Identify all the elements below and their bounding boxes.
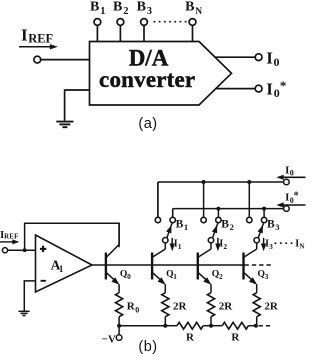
junction dots on I0 rail	[202, 180, 252, 184]
svg-text:(a): (a)	[138, 116, 157, 132]
dashed bottom rail continuation	[259, 325, 274, 327]
wire - input to ground	[24, 281, 35, 311]
svg-text:3: 3	[275, 222, 279, 232]
label I0*	[266, 78, 286, 100]
resistor 2R #2	[207, 293, 233, 326]
svg-text:N: N	[195, 7, 202, 17]
svg-text:N: N	[299, 243, 304, 251]
svg-text:2R: 2R	[264, 301, 279, 313]
resistor R0	[116, 293, 140, 326]
svg-text:1: 1	[173, 272, 177, 281]
svg-text:1: 1	[178, 242, 182, 251]
svg-text:2: 2	[123, 6, 128, 17]
input terminal IREF (b)	[0, 229, 19, 253]
terminal I0 circle	[255, 54, 262, 61]
junction dot node 4	[254, 324, 258, 328]
wire I0 rail to switch S1 left contact	[157, 182, 159, 217]
svg-text:2R: 2R	[219, 301, 234, 313]
svg-text:B: B	[221, 218, 229, 230]
svg-text:3: 3	[265, 272, 269, 281]
op-amp A1	[36, 235, 93, 292]
wire I0 rail corner	[157, 182, 159, 217]
wire I0* rail to switch S1 right contact	[172, 209, 174, 218]
svg-text:*: *	[294, 190, 299, 201]
I0 output rail	[158, 181, 284, 183]
wire I0 rail to switch S3 left contact	[248, 182, 250, 217]
svg-text:−V: −V	[102, 333, 116, 345]
resistor 2R #3	[253, 293, 279, 326]
svg-text:B: B	[90, 0, 99, 15]
svg-text:0: 0	[274, 55, 280, 69]
transistor Q3	[244, 243, 269, 293]
svg-text:I: I	[266, 80, 273, 99]
wire output I0*	[216, 88, 255, 90]
terminal I0* circle	[255, 85, 262, 92]
svg-text:R: R	[231, 331, 240, 343]
dots and label IN	[275, 238, 305, 250]
common base rail from op-amp output	[92, 264, 244, 266]
wire block to ground	[65, 90, 90, 121]
svg-text:B: B	[137, 0, 146, 15]
dotted line between B3 and BN	[154, 21, 189, 23]
svg-text:0: 0	[127, 272, 131, 281]
resistor 2R #1	[162, 293, 188, 326]
svg-text:I: I	[266, 48, 273, 67]
svg-text:1: 1	[184, 222, 188, 232]
junction dots on I0* rail	[216, 207, 266, 211]
svg-text:B: B	[267, 218, 275, 230]
label I0	[266, 48, 279, 68]
terminal -V	[102, 326, 122, 346]
svg-text:0: 0	[290, 169, 294, 178]
svg-text:R: R	[186, 331, 195, 343]
svg-text:1: 1	[100, 6, 105, 17]
wire I0* rail to switch S2 right contact	[217, 209, 219, 218]
svg-text:*: *	[280, 78, 287, 93]
node at + input	[23, 248, 27, 252]
svg-text:REF: REF	[4, 234, 19, 241]
svg-text:2R: 2R	[173, 301, 188, 313]
terminal I0 (b)	[284, 179, 290, 185]
switch S3 with contacts B3	[247, 217, 280, 243]
junction dot node 2	[163, 324, 167, 328]
wire I0* rail corner	[172, 209, 174, 218]
svg-text:0: 0	[135, 305, 139, 314]
I0* output rail	[173, 208, 284, 210]
svg-text:3: 3	[147, 6, 152, 17]
input terminal B1 with wire	[90, 0, 105, 42]
caption (b)	[138, 339, 157, 355]
resistor R #2	[211, 322, 256, 343]
svg-text:B: B	[176, 218, 184, 230]
svg-text:REF: REF	[28, 32, 53, 46]
ground symbol (a)	[56, 122, 73, 128]
svg-text:3: 3	[269, 242, 273, 251]
svg-text:2: 2	[219, 272, 223, 281]
svg-text:B: B	[113, 0, 122, 15]
svg-text:2: 2	[230, 222, 234, 232]
feedback wire from Q0 collector to + input	[25, 223, 120, 250]
switch S2 with contacts B2	[201, 217, 234, 243]
junction dot node 1	[117, 324, 121, 328]
switch S1 with contacts B1	[155, 217, 188, 243]
wire IREF to block	[41, 59, 90, 61]
input terminal B2 with wire	[113, 0, 128, 42]
svg-text:(b): (b)	[138, 339, 157, 355]
D/A converter block	[90, 42, 232, 106]
current arrow I3	[261, 238, 273, 252]
resistor R #1	[165, 322, 211, 343]
current arrow I2	[215, 238, 227, 252]
svg-text:1: 1	[59, 264, 64, 274]
transistor Q1	[152, 243, 177, 293]
svg-text:B: B	[185, 0, 194, 15]
svg-text:converter: converter	[99, 67, 195, 92]
input terminal BN with wire	[185, 0, 202, 42]
wire I0* rail to switch S3 right contact	[263, 209, 265, 218]
input terminal IREF label and arrow	[19, 25, 58, 49]
wire I0 rail to switch S2 left contact	[203, 182, 205, 217]
svg-text:I: I	[21, 25, 28, 44]
terminal IREF circle	[34, 56, 41, 63]
bottom rail segment 1	[119, 325, 165, 327]
wire IREF to op-amp	[8, 249, 36, 251]
current arrow I1	[170, 238, 182, 252]
input terminal B3 with wire	[137, 0, 152, 42]
svg-text:2: 2	[223, 242, 227, 251]
terminal I0* (b)	[284, 206, 290, 212]
caption (a)	[138, 116, 157, 132]
arrow and label I0* (b)	[276, 190, 305, 207]
junction dot node 3	[209, 324, 213, 328]
dashed base rail after Q3	[245, 264, 274, 266]
ground symbol (b)	[18, 311, 29, 315]
arrow and label I0 (b)	[276, 165, 305, 180]
wire output I0	[215, 56, 255, 58]
svg-text:0: 0	[274, 86, 280, 100]
transistor Q2	[198, 243, 223, 293]
transistor Q0	[106, 223, 131, 292]
